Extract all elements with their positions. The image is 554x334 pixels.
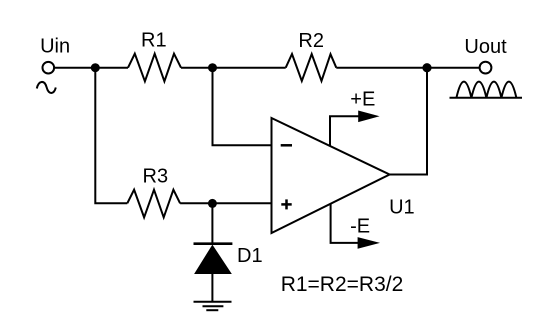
output terminal circle	[480, 62, 492, 74]
svg-text:R3: R3	[143, 166, 169, 188]
svg-text:R1=R2=R3/2: R1=R2=R3/2	[281, 273, 404, 296]
wire R1 to node B	[181, 67, 213, 69]
wire Uin to node A	[54, 67, 95, 69]
label R2	[298, 30, 324, 52]
svg-text:U1: U1	[389, 197, 415, 219]
label U1	[389, 197, 415, 219]
node C junction dot	[422, 63, 431, 72]
input terminal circle	[43, 62, 55, 74]
wire node B to R2	[213, 67, 286, 69]
label R3	[143, 166, 169, 188]
wire node A down to R3	[95, 68, 127, 204]
+E supply tap wire	[330, 116, 359, 146]
svg-text:R2: R2	[298, 30, 324, 52]
+E supply arrowhead	[358, 111, 379, 123]
-E supply tap wire	[331, 204, 358, 243]
svg-text:+E: +E	[350, 89, 375, 111]
svg-text:D1: D1	[237, 245, 263, 267]
diode D1 triangle	[195, 246, 231, 274]
node A junction dot	[91, 63, 100, 72]
wire R2 to node C	[336, 67, 427, 69]
output terminal Uout label	[464, 36, 507, 58]
svg-text:Uin: Uin	[40, 35, 70, 57]
node B junction dot	[208, 63, 217, 72]
AC source sine symbol	[37, 82, 56, 93]
svg-text:-E: -E	[350, 216, 370, 238]
op-amp plus sign	[281, 199, 291, 209]
input terminal Uin label	[40, 35, 70, 57]
label R1	[141, 30, 167, 52]
label -E	[350, 216, 370, 238]
wire R3 to node D	[180, 202, 212, 204]
resistor R3	[127, 190, 180, 218]
wire node C to Uout terminal	[427, 67, 480, 69]
wire node D to noninverting input	[212, 202, 271, 204]
wire op-amp output to node C	[390, 68, 427, 175]
equation text R1=R2=R3/2	[281, 273, 404, 296]
rectified sine waveform symbol	[450, 82, 523, 98]
-E supply arrowhead	[358, 237, 380, 249]
wire node A to R1	[95, 67, 128, 69]
ground	[194, 302, 232, 310]
resistor R2	[286, 54, 337, 81]
wire node D down to diode	[211, 203, 213, 244]
op-amp minus sign	[281, 144, 292, 147]
op-amp U1 triangle	[272, 118, 390, 233]
label +E	[350, 89, 375, 111]
wire diode to ground	[211, 274, 213, 302]
svg-text:R1: R1	[141, 30, 167, 52]
svg-text:Uout: Uout	[464, 36, 507, 58]
diode D1 cathode bar	[194, 242, 233, 245]
node D junction dot	[208, 199, 217, 208]
resistor R1	[128, 54, 181, 82]
wire node B down to inverting input	[213, 68, 272, 146]
label D1	[237, 245, 263, 267]
